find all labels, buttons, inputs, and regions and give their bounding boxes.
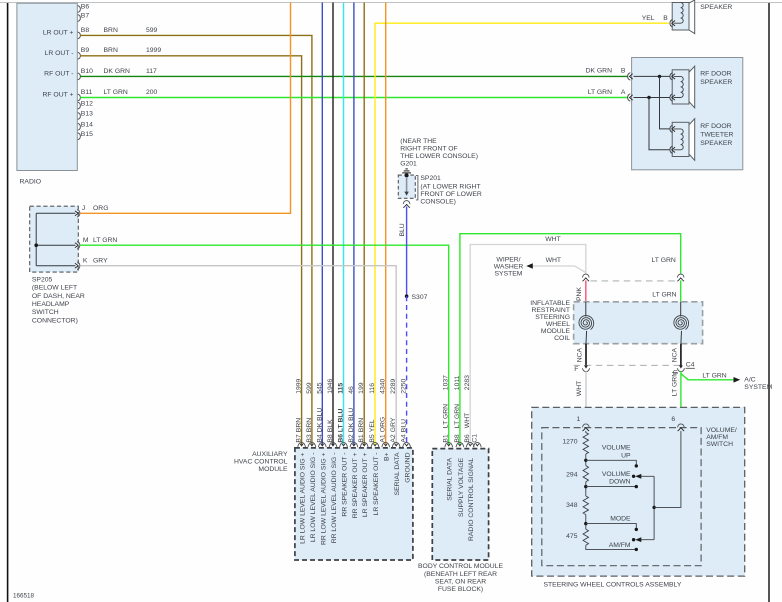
- svg-text:LR LOW LEVEL AUDIO SIG -: LR LOW LEVEL AUDIO SIG -: [310, 453, 317, 543]
- wire: A branch to tweeter -: [649, 98, 670, 150]
- svg-text:MODULE: MODULE: [541, 328, 571, 335]
- svg-text:1270: 1270: [562, 439, 577, 446]
- svg-text:TWEETER: TWEETER: [700, 132, 733, 139]
- wire: coil feed left: [585, 302, 587, 317]
- wire DK GRN 117 (radio B10 to RF door speaker B): [80, 75, 628, 77]
- speaker (top, cropped): [689, 0, 695, 34]
- svg-text:WHT: WHT: [546, 257, 561, 264]
- svg-text:SERIAL DATA: SERIAL DATA: [394, 452, 401, 495]
- svg-text:M: M: [83, 237, 89, 244]
- svg-text:BRN: BRN: [104, 27, 118, 34]
- wire LT BLU 115 (HVAC B6 from top): [343, 3, 345, 446]
- junction: volume down tap: [584, 485, 587, 488]
- svg-text:AUXILIARY: AUXILIARY: [252, 451, 288, 458]
- svg-text:B2: B2: [348, 434, 355, 443]
- resistor R2 294: [583, 466, 588, 482]
- svg-text:LT GRN: LT GRN: [652, 257, 676, 264]
- wire: volume down contact: [586, 486, 637, 488]
- svg-text:B15: B15: [81, 131, 93, 138]
- resistor R1 1270: [583, 433, 588, 455]
- svg-text:RR LOW LEVEL AUDIO SIG +: RR LOW LEVEL AUDIO SIG +: [320, 452, 327, 545]
- svg-text:MODULE: MODULE: [258, 466, 288, 473]
- wire: coil tail right: [680, 331, 683, 344]
- svg-text:CONNECTOR): CONNECTOR): [32, 317, 78, 324]
- connector below SP201: [403, 201, 410, 204]
- wire LT GRN 200 (radio B11 to RF door speaker A): [80, 97, 628, 99]
- wire: R1 to R2: [585, 454, 587, 466]
- wire LT GRN branch to A/C system: [681, 374, 688, 380]
- pin K of SP205: [77, 262, 80, 270]
- svg-text:RF OUT +: RF OUT +: [42, 92, 73, 99]
- contact: volume up: [635, 464, 638, 467]
- connector C4 (dashed tie): [574, 364, 681, 366]
- svg-text:B3: B3: [306, 434, 313, 443]
- coil L1 (SRS coil left): [579, 316, 594, 330]
- wire: pin A to RF door speaker -: [634, 97, 670, 99]
- svg-text:FRONT OF LOWER: FRONT OF LOWER: [420, 191, 482, 198]
- svg-text:RR LOW LEVEL AUDIO SIG -: RR LOW LEVEL AUDIO SIG -: [331, 453, 338, 544]
- wire: SP205 internal bus: [35, 213, 37, 265]
- svg-text:SERIAL DATA: SERIAL DATA: [447, 457, 454, 500]
- svg-text:(BENEATH LEFT REAR: (BENEATH LEFT REAR: [424, 571, 497, 578]
- splice SP205 (box): [30, 206, 79, 272]
- svg-text:B6: B6: [464, 434, 471, 443]
- junction: SP205 splice node: [34, 243, 38, 247]
- svg-text:UP: UP: [621, 453, 631, 460]
- svg-text:599: 599: [146, 27, 158, 34]
- svg-text:THE LOWER CONSOLE): THE LOWER CONSOLE): [400, 153, 478, 160]
- svg-text:46: 46: [348, 386, 355, 394]
- junction: bus to pin 6: [652, 506, 655, 509]
- wire: top crop edge: [0, 2, 782, 4]
- svg-text:WIPER/: WIPER/: [496, 256, 520, 263]
- svg-text:LT GRN: LT GRN: [588, 89, 612, 96]
- junction on A wire: [647, 96, 650, 99]
- svg-text:DOWN: DOWN: [609, 478, 631, 485]
- svg-text:A/C: A/C: [744, 376, 755, 383]
- contact: volume down: [635, 485, 638, 488]
- svg-text:348: 348: [566, 502, 578, 509]
- svg-text:RF OUT -: RF OUT -: [44, 70, 73, 77]
- svg-text:HVAC CONTROL: HVAC CONTROL: [234, 459, 288, 466]
- wire YEL 116 (HVAC B5 to top speaker): [375, 23, 669, 445]
- svg-text:SPEAKER: SPEAKER: [700, 79, 732, 86]
- wire WHT (C4 to steering wheel switch pin 1): [585, 371, 587, 424]
- svg-text:LT GRN: LT GRN: [93, 237, 117, 244]
- wire ORG (SP205 J to top): [80, 3, 290, 214]
- svg-text:LT GRN: LT GRN: [672, 372, 679, 396]
- svg-text:J: J: [82, 205, 85, 212]
- wire: B branch to tweeter +: [660, 76, 670, 128]
- resistor R3 348: [583, 496, 588, 515]
- wire BLU 2250 (S307 to HVAC A4, dashed): [406, 296, 408, 445]
- wire: page frame right rule: [768, 3, 770, 602]
- svg-text:G201: G201: [400, 161, 417, 168]
- wire DK BLU 46 (HVAC B2 from top): [353, 3, 355, 446]
- wire: common bus: [653, 476, 655, 539]
- radio pin B13: [78, 113, 81, 120]
- svg-text:VOLUME: VOLUME: [602, 444, 631, 451]
- svg-text:B11: B11: [81, 89, 93, 96]
- svg-text:RR SPEAKER OUT +: RR SPEAKER OUT +: [352, 452, 359, 518]
- svg-text:GROUND: GROUND: [405, 452, 412, 482]
- SRS steering wheel module coil (box): [574, 302, 703, 344]
- svg-text:116: 116: [369, 383, 376, 394]
- svg-text:RF DOOR: RF DOOR: [700, 123, 731, 130]
- svg-text:(NEAR THE: (NEAR THE: [400, 138, 437, 145]
- connector pin 1 (switch): [582, 424, 589, 427]
- contact: mode: [635, 528, 638, 531]
- wire LT GRN (to SRS coil): [680, 280, 682, 301]
- svg-text:RF DOOR: RF DOOR: [700, 70, 731, 77]
- svg-text:VOLUME/: VOLUME/: [706, 427, 737, 434]
- svg-text:LT GRN: LT GRN: [454, 404, 461, 428]
- svg-text:SYSTEM: SYSTEM: [495, 271, 523, 278]
- svg-text:B: B: [663, 15, 668, 22]
- svg-text:BLU: BLU: [401, 419, 408, 432]
- svg-text:LT BLU: LT BLU: [338, 408, 345, 432]
- svg-text:545: 545: [316, 382, 323, 394]
- wire: pin B to RF door speaker +: [634, 75, 670, 77]
- svg-text:B1: B1: [443, 434, 450, 443]
- wire NCA (right, coil to C4): [680, 344, 682, 367]
- svg-text:LT GRN: LT GRN: [652, 292, 676, 299]
- switch blade SW2 (mode/am-fm): [638, 539, 654, 541]
- svg-text:A: A: [621, 89, 626, 96]
- svg-text:RADIO: RADIO: [20, 179, 42, 186]
- svg-text:OF DASH, NEAR: OF DASH, NEAR: [32, 293, 85, 300]
- svg-text:INFLATABLE: INFLATABLE: [530, 300, 570, 307]
- wire NCA (left, coil to C4): [585, 344, 587, 367]
- svg-text:WHEEL: WHEEL: [546, 321, 570, 328]
- wire: R4 to am/fm contact: [586, 545, 637, 549]
- svg-text:FUSE BLOCK): FUSE BLOCK): [438, 586, 483, 593]
- svg-text:1: 1: [577, 416, 581, 423]
- volume/am-fm switch (box): [542, 428, 701, 566]
- wire ORG 4340 (HVAC A1 from top): [385, 3, 387, 446]
- svg-text:(AT LOWER RIGHT: (AT LOWER RIGHT: [420, 183, 480, 190]
- svg-text:199: 199: [358, 382, 365, 394]
- svg-text:B8: B8: [454, 434, 461, 443]
- contact: am/fm: [635, 548, 638, 551]
- svg-text:1011: 1011: [454, 375, 461, 390]
- wire: bus to pin 6: [654, 431, 681, 508]
- svg-text:BLU: BLU: [399, 223, 406, 236]
- pin M of SP205: [77, 241, 80, 249]
- svg-text:DK GRN: DK GRN: [586, 68, 613, 75]
- svg-text:SP201: SP201: [420, 175, 441, 182]
- wire: volume up contact: [586, 460, 637, 466]
- svg-text:LR OUT -: LR OUT -: [45, 50, 74, 57]
- svg-text:AM/FM: AM/FM: [609, 542, 631, 549]
- svg-text:RADIO CONTROL SIGNAL: RADIO CONTROL SIGNAL: [468, 458, 475, 541]
- svg-text:B7: B7: [296, 434, 303, 443]
- speaker RF door tweeter: [689, 119, 695, 161]
- svg-text:B8: B8: [327, 434, 334, 443]
- svg-text:ORG: ORG: [380, 417, 387, 432]
- svg-text:HEADLAMP: HEADLAMP: [32, 301, 70, 308]
- svg-text:SUPPLY VOLTAGE: SUPPLY VOLTAGE: [458, 457, 465, 517]
- radio pin B12: [78, 102, 81, 109]
- wire BRN 1999 (radio B9 to HVAC B7): [80, 56, 301, 446]
- svg-text:LT GRN: LT GRN: [443, 404, 450, 428]
- svg-text:B4: B4: [316, 434, 323, 443]
- svg-text:NCA: NCA: [671, 347, 678, 362]
- svg-text:(BELOW LEFT: (BELOW LEFT: [32, 285, 77, 292]
- label SP201 bracket: [416, 176, 418, 200]
- svg-text:SEAT, ON REAR: SEAT, ON REAR: [435, 578, 486, 585]
- pin J of SP205: [77, 210, 80, 218]
- wire BRN 199 (HVAC B1 from top): [363, 3, 365, 446]
- connector: column in-line right: [677, 274, 684, 277]
- svg-text:SPEAKER: SPEAKER: [700, 4, 732, 11]
- radio pin B15: [78, 133, 81, 140]
- svg-text:COIL: COIL: [554, 335, 570, 342]
- svg-text:RESTRAINT: RESTRAINT: [531, 307, 570, 314]
- wire: in-line connector tie (dashed): [591, 280, 677, 282]
- svg-text:B: B: [621, 68, 626, 75]
- svg-text:B8: B8: [81, 27, 90, 34]
- svg-text:B+: B+: [384, 452, 391, 461]
- junction: G201 node: [405, 173, 409, 177]
- svg-text:A2: A2: [390, 434, 397, 443]
- svg-text:LR SPEAKER OUT +: LR SPEAKER OUT +: [362, 452, 369, 517]
- svg-text:DK GRN: DK GRN: [104, 68, 131, 75]
- svg-text:GRY: GRY: [93, 257, 108, 264]
- svg-text:A4: A4: [401, 434, 408, 443]
- wire: SP205 branch K: [36, 265, 75, 267]
- svg-text:PNK: PNK: [576, 287, 583, 301]
- svg-text:A1: A1: [380, 434, 387, 443]
- svg-text:SPEAKER: SPEAKER: [700, 140, 732, 147]
- svg-text:BRN: BRN: [306, 418, 313, 432]
- svg-text:1999: 1999: [146, 47, 161, 54]
- connector pin B (assembly): [628, 73, 631, 80]
- svg-text:AM/FM: AM/FM: [706, 434, 728, 441]
- wire: SP205 branch J: [36, 212, 75, 214]
- svg-text:B5: B5: [369, 434, 376, 443]
- svg-text:LT GRN: LT GRN: [104, 89, 128, 96]
- radio pin B7: [78, 15, 81, 22]
- svg-text:6: 6: [671, 416, 675, 423]
- speaker RF door speaker: [689, 66, 695, 108]
- junction on B wire: [658, 75, 661, 78]
- svg-text:B6: B6: [81, 4, 90, 11]
- wire PNK (to SRS coil): [585, 280, 587, 301]
- svg-text:SP205: SP205: [32, 276, 53, 283]
- connector C4 right: [679, 365, 683, 368]
- svg-text:BRN: BRN: [296, 418, 303, 432]
- svg-text:B1: B1: [358, 434, 365, 443]
- svg-text:CONSOLE): CONSOLE): [420, 198, 456, 205]
- svg-text:294: 294: [566, 472, 578, 479]
- svg-text:BLK: BLK: [327, 419, 334, 432]
- svg-text:599: 599: [306, 382, 313, 394]
- svg-text:2250: 2250: [401, 378, 408, 393]
- svg-text:F: F: [574, 366, 578, 373]
- svg-text:ORG: ORG: [93, 205, 108, 212]
- wire: SP205 branch M: [36, 244, 75, 246]
- connector pin 6 (switch): [678, 424, 685, 427]
- svg-text:DK BLU: DK BLU: [348, 408, 355, 433]
- RF door speaker assembly (box): [632, 58, 743, 170]
- svg-text:115: 115: [338, 383, 345, 394]
- wire BLK 1946 (HVAC B8 from top): [332, 3, 334, 446]
- svg-text:LR LOW LEVEL AUDIO SIG +: LR LOW LEVEL AUDIO SIG +: [300, 452, 307, 543]
- wire: SP201 internal: [406, 177, 408, 192]
- svg-text:RR SPEAKER OUT -: RR SPEAKER OUT -: [342, 453, 349, 517]
- connector pin A (assembly): [628, 94, 631, 101]
- resistor R4 475: [583, 529, 588, 545]
- svg-text:LR OUT +: LR OUT +: [43, 29, 74, 36]
- svg-text:1946: 1946: [327, 378, 334, 393]
- wire LT GRN (C4 to pin 6 and A/C): [680, 371, 682, 424]
- svg-text:B6: B6: [338, 434, 345, 443]
- wire LT GRN (SP205 M to BCM B1): [80, 245, 448, 445]
- svg-text:475: 475: [566, 533, 578, 540]
- svg-text:K: K: [83, 257, 88, 264]
- splice S307: [405, 294, 409, 298]
- splice SP201 (box): [398, 175, 415, 198]
- svg-text:WASHER: WASHER: [494, 264, 524, 271]
- svg-text:C4: C4: [686, 361, 695, 368]
- svg-text:2283: 2283: [464, 375, 471, 390]
- svg-text:2289: 2289: [390, 378, 397, 393]
- svg-text:NCA: NCA: [576, 347, 583, 362]
- wire BRN 599 (radio B8 to HVAC B3): [80, 35, 312, 445]
- svg-text:YEL: YEL: [369, 419, 376, 432]
- auxiliary HVAC control module (box): [295, 448, 413, 560]
- connector C4 left: [584, 365, 588, 368]
- radio pin B14: [78, 123, 81, 130]
- svg-text:200: 200: [146, 89, 158, 96]
- svg-text:WHT: WHT: [576, 381, 583, 396]
- wire GRY 2289 (SP205 K to HVAC A2): [80, 266, 396, 446]
- wire: page frame left rule: [7, 3, 9, 602]
- svg-text:DK BLU: DK BLU: [316, 408, 323, 433]
- wire BLU (SP201 to S307): [406, 207, 408, 297]
- svg-text:RIGHT FRONT OF: RIGHT FRONT OF: [400, 146, 458, 153]
- svg-text:B13: B13: [81, 111, 93, 118]
- body control module (box): [432, 449, 488, 560]
- svg-text:LR SPEAKER OUT -: LR SPEAKER OUT -: [373, 453, 380, 516]
- svg-text:117: 117: [146, 68, 157, 75]
- radio U1 (connector box): [17, 3, 77, 170]
- wire: R3 to R4: [585, 515, 587, 530]
- svg-text:BODY CONTROL MODULE: BODY CONTROL MODULE: [418, 563, 503, 570]
- steering wheel controls assembly (box): [532, 407, 745, 576]
- radio pin B11: [78, 94, 81, 101]
- wire: mode contact: [586, 524, 637, 530]
- coil L2 (SRS coil right): [674, 316, 689, 330]
- junction: volume up tap: [584, 459, 587, 462]
- svg-text:B10: B10: [81, 68, 93, 75]
- svg-text:STEERING: STEERING: [535, 314, 570, 321]
- svg-text:1999: 1999: [296, 378, 303, 393]
- svg-text:LT GRN: LT GRN: [702, 372, 726, 379]
- radio pin B8: [78, 32, 81, 39]
- wire: pin1 to R1: [585, 431, 587, 433]
- svg-text:1037: 1037: [443, 375, 450, 390]
- junction: mode tap: [584, 522, 587, 525]
- svg-text:WHT: WHT: [464, 413, 471, 428]
- svg-text:BRN: BRN: [358, 418, 365, 432]
- ground G201: [405, 168, 407, 170]
- svg-text:GRY: GRY: [390, 417, 397, 432]
- svg-text:S307: S307: [412, 294, 428, 301]
- svg-text:C1: C1: [471, 434, 478, 443]
- wire LT GRN 1011 (BCM B8 to steering column): [460, 234, 681, 446]
- svg-text:STEERING WHEEL CONTROLS ASSEMB: STEERING WHEEL CONTROLS ASSEMBLY: [544, 581, 682, 588]
- svg-text:MODE: MODE: [610, 515, 631, 522]
- radio pin B6: [78, 6, 81, 13]
- wire: R2 to R3: [585, 482, 587, 496]
- wire WHT branch to wiper/washer: [532, 265, 574, 267]
- svg-text:B14: B14: [81, 122, 93, 129]
- svg-text:B7: B7: [81, 13, 90, 20]
- radio pin B9: [78, 52, 81, 59]
- svg-text:B9: B9: [81, 47, 90, 54]
- svg-text:BRN: BRN: [104, 47, 118, 54]
- connector: column in-line left: [582, 274, 589, 277]
- wire WHT 2283 (BCM B6 radio control signal): [470, 245, 586, 446]
- svg-text:SWITCH: SWITCH: [32, 309, 59, 316]
- svg-text:SWITCH: SWITCH: [706, 441, 733, 448]
- svg-text:B12: B12: [81, 100, 93, 107]
- svg-text:YEL: YEL: [642, 15, 655, 22]
- wire: coil feed right: [680, 302, 682, 317]
- svg-text:VOLUME: VOLUME: [602, 471, 631, 478]
- svg-text:WHT: WHT: [545, 236, 560, 243]
- svg-text:166518: 166518: [13, 593, 35, 600]
- wire DK BLU 545 (HVAC B4 from top): [321, 3, 323, 446]
- switch blade SW1 (volume): [638, 475, 654, 477]
- svg-text:SYSTEM: SYSTEM: [744, 384, 772, 391]
- svg-text:4340: 4340: [380, 378, 387, 393]
- wire: coil tail left: [585, 331, 588, 344]
- radio pin B10: [78, 73, 81, 80]
